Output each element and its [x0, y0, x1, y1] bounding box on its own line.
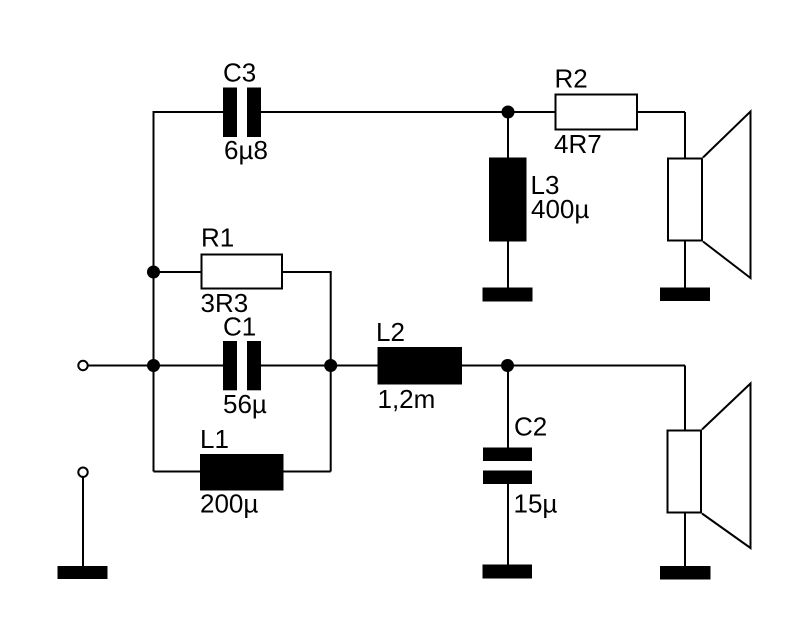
svg-text:L1: L1: [200, 424, 229, 454]
svg-text:L2: L2: [376, 317, 405, 347]
svg-text:400µ: 400µ: [531, 194, 589, 224]
svg-text:R2: R2: [555, 64, 588, 94]
svg-text:C1: C1: [223, 312, 256, 342]
svg-text:4R7: 4R7: [554, 129, 602, 159]
svg-text:C2: C2: [514, 412, 547, 442]
svg-text:56µ: 56µ: [223, 389, 267, 419]
svg-text:200µ: 200µ: [200, 489, 258, 519]
svg-text:6µ8: 6µ8: [224, 135, 268, 165]
svg-text:C3: C3: [223, 58, 256, 88]
svg-text:1,2m: 1,2m: [378, 384, 436, 414]
svg-text:R1: R1: [201, 223, 234, 253]
svg-text:15µ: 15µ: [514, 489, 558, 519]
